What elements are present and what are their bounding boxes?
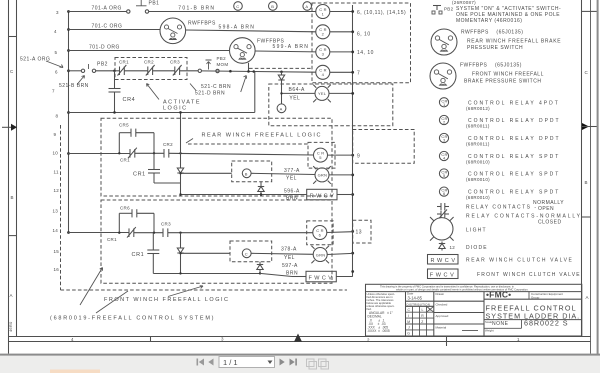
svg-text:(68R0010): (68R0010) xyxy=(466,195,490,200)
svg-text:68R0022 S: 68R0022 S xyxy=(524,318,569,327)
svg-text:Approved: Approved xyxy=(436,314,449,318)
svg-text:MOM: MOM xyxy=(217,62,229,67)
svg-text:598-A BRN: 598-A BRN xyxy=(219,24,256,30)
svg-text:C: C xyxy=(585,70,589,75)
svg-text:YEL: YEL xyxy=(286,176,297,182)
svg-text:FRONT WINCH FREEFALL: FRONT WINCH FREEFALL xyxy=(472,72,544,78)
svg-text:6: 6 xyxy=(55,70,58,75)
svg-text:REAR WINCH FREEFALL LOGIC: REAR WINCH FREEFALL LOGIC xyxy=(202,133,322,139)
svg-text:B: B xyxy=(245,171,248,176)
svg-text:Checked: Checked xyxy=(436,303,448,307)
svg-text:A: A xyxy=(10,293,13,298)
svg-text:(68R0010): (68R0010) xyxy=(466,177,490,182)
svg-text:MOMENTARY (46R0016): MOMENTARY (46R0016) xyxy=(456,18,522,24)
svg-text:DIODE: DIODE xyxy=(466,245,488,251)
svg-text:NONE: NONE xyxy=(492,321,509,327)
svg-text:YEL: YEL xyxy=(284,255,295,261)
svg-text:4: 4 xyxy=(71,337,74,342)
svg-text:J: J xyxy=(408,326,410,330)
svg-text:(68R0012): (68R0012) xyxy=(466,106,490,111)
svg-text:CR3: CR3 xyxy=(161,222,171,227)
svg-text:L: L xyxy=(422,308,424,312)
svg-text:LIGHT: LIGHT xyxy=(466,227,487,233)
svg-text:C: C xyxy=(245,251,248,256)
svg-text:M: M xyxy=(407,320,410,324)
svg-text:YEL: YEL xyxy=(289,96,300,102)
svg-text:6, 10: 6, 10 xyxy=(357,32,371,38)
svg-text:CR1: CR1 xyxy=(133,172,146,178)
svg-text:B: B xyxy=(271,4,274,9)
svg-text:14: 14 xyxy=(53,228,59,233)
svg-text:CLOSED: CLOSED xyxy=(538,220,562,226)
svg-text:(26R0087): (26R0087) xyxy=(452,0,476,5)
svg-text:7: 7 xyxy=(357,71,360,77)
svg-text:Drawn: Drawn xyxy=(436,292,445,296)
svg-text:701-A ORG: 701-A ORG xyxy=(92,6,122,12)
svg-text:Weight: Weight xyxy=(485,329,494,333)
svg-text:PB2: PB2 xyxy=(97,62,108,68)
svg-text:DISTRIBUTION: DISTRIBUTION xyxy=(407,302,431,306)
svg-text:CR1: CR1 xyxy=(120,158,130,163)
svg-text:Z: Z xyxy=(421,320,423,324)
svg-text:OPEN: OPEN xyxy=(538,206,554,212)
svg-text:A: A xyxy=(280,106,283,111)
svg-text:RELAY CONTACTS -: RELAY CONTACTS - xyxy=(466,205,538,211)
svg-text:CR1: CR1 xyxy=(132,252,145,258)
svg-text:CR6: CR6 xyxy=(120,206,130,211)
svg-text:3: 3 xyxy=(56,10,59,15)
svg-text:BRN: BRN xyxy=(286,196,298,202)
svg-text:3-14-85: 3-14-85 xyxy=(408,296,423,301)
svg-text:15: 15 xyxy=(54,249,60,254)
svg-text:378-A: 378-A xyxy=(281,247,297,253)
svg-text:7: 7 xyxy=(52,89,55,94)
svg-text:FRONT WINCH FREEFALL LOGIC: FRONT WINCH FREEFALL LOGIC xyxy=(104,297,229,303)
svg-text:701-B BRN: 701-B BRN xyxy=(178,6,215,12)
svg-text:1: 1 xyxy=(517,337,520,342)
svg-text:CR2: CR2 xyxy=(144,60,154,65)
svg-text:RWCV: RWCV xyxy=(431,258,458,264)
svg-text:4: 4 xyxy=(54,29,57,34)
svg-text:46R0: 46R0 xyxy=(8,321,13,332)
svg-text:CR3: CR3 xyxy=(170,60,180,65)
svg-text:701-C ORG: 701-C ORG xyxy=(92,24,123,30)
svg-text:PB1: PB1 xyxy=(149,1,160,7)
svg-text:PRESSURE SWITCH: PRESSURE SWITCH xyxy=(467,45,523,51)
svg-text:FWCV: FWCV xyxy=(430,273,457,279)
svg-text:521-D BRN: 521-D BRN xyxy=(195,91,225,97)
svg-text:8: 8 xyxy=(56,114,59,119)
svg-text:3: 3 xyxy=(221,337,224,342)
svg-text:(68R0011): (68R0011) xyxy=(466,124,490,129)
svg-text:B: B xyxy=(11,195,14,200)
svg-text:12: 12 xyxy=(450,245,456,250)
svg-text:RELAY CONTACTS-NORMALLY: RELAY CONTACTS-NORMALLY xyxy=(466,214,582,220)
svg-text:CR5: CR5 xyxy=(119,123,129,128)
svg-text:CR1: CR1 xyxy=(107,237,117,242)
svg-text:5: 5 xyxy=(55,50,58,55)
svg-text:I: I xyxy=(408,314,409,318)
svg-text:GRN: GRN xyxy=(318,173,328,178)
svg-text:(68R0019-FREEFALL CONTROL SYST: (68R0019-FREEFALL CONTROL SYSTEM) xyxy=(50,316,215,322)
svg-text:FWFFBPS (65J0135): FWFFBPS (65J0135) xyxy=(460,63,522,69)
svg-text:6, (10,11), (14,15): 6, (10,11), (14,15) xyxy=(357,10,406,16)
svg-text:12: 12 xyxy=(54,188,60,193)
svg-text:14, 10: 14, 10 xyxy=(357,50,374,56)
svg-text:Material: Material xyxy=(436,325,447,329)
svg-text:.XXXX ± .0005: .XXXX ± .0005 xyxy=(367,329,390,333)
svg-text:•FMC•: •FMC• xyxy=(486,290,511,300)
svg-text:B: B xyxy=(585,180,588,185)
svg-text:REAR WINCH CLUTCH VALVE: REAR WINCH CLUTCH VALVE xyxy=(466,258,573,264)
svg-text:521-C BRN: 521-C BRN xyxy=(201,84,231,90)
svg-text:LOGIC: LOGIC xyxy=(163,106,188,112)
svg-text:FWCV: FWCV xyxy=(309,275,335,281)
svg-text:521-A ORG: 521-A ORG xyxy=(20,57,50,63)
svg-text:C: C xyxy=(236,4,239,9)
svg-text:RWCV: RWCV xyxy=(310,193,336,199)
svg-text:596-A: 596-A xyxy=(284,189,300,195)
svg-text:377-A: 377-A xyxy=(284,168,300,174)
svg-text:FRONT WINCH CLUTCH VALVE: FRONT WINCH CLUTCH VALVE xyxy=(477,272,581,278)
svg-text:PB2: PB2 xyxy=(444,7,454,12)
svg-text:2: 2 xyxy=(367,338,370,343)
svg-text:(68R0011): (68R0011) xyxy=(466,142,490,147)
svg-text:599-A BRN: 599-A BRN xyxy=(273,44,310,50)
svg-text:G: G xyxy=(407,332,410,336)
svg-text:C: C xyxy=(10,69,14,74)
svg-text:CR1: CR1 xyxy=(119,60,129,65)
svg-text:(68R0010): (68R0010) xyxy=(466,160,490,165)
svg-text:521-B BRN: 521-B BRN xyxy=(59,83,89,89)
svg-text:11: 11 xyxy=(54,170,59,175)
svg-text:A: A xyxy=(305,4,308,9)
svg-text:9: 9 xyxy=(357,153,360,159)
svg-text:CR4: CR4 xyxy=(123,97,136,103)
svg-text:RWFFBPS: RWFFBPS xyxy=(188,21,216,27)
svg-text:PB2: PB2 xyxy=(217,56,227,61)
svg-text:B64-A: B64-A xyxy=(289,87,306,93)
svg-text:BRAKE PRESSURE SWITCH: BRAKE PRESSURE SWITCH xyxy=(464,79,541,85)
svg-text:13: 13 xyxy=(356,230,363,236)
svg-text:YEL: YEL xyxy=(318,91,327,96)
svg-text:9: 9 xyxy=(54,132,57,137)
svg-text:701-D ORG: 701-D ORG xyxy=(89,45,120,51)
svg-text:10: 10 xyxy=(53,151,59,156)
svg-text:RWFFBPS (65J0135): RWFFBPS (65J0135) xyxy=(461,30,523,36)
svg-text:REAR WINCH FREEFALL BRAKE: REAR WINCH FREEFALL BRAKE xyxy=(467,39,561,45)
svg-text:16: 16 xyxy=(54,267,60,272)
svg-text:CR2: CR2 xyxy=(163,142,173,147)
svg-text:597-A: 597-A xyxy=(282,263,298,269)
svg-text:A: A xyxy=(586,295,589,300)
svg-text:1 / 1: 1 / 1 xyxy=(223,358,238,367)
svg-text:13: 13 xyxy=(53,209,59,214)
svg-text:GRN: GRN xyxy=(316,252,326,257)
